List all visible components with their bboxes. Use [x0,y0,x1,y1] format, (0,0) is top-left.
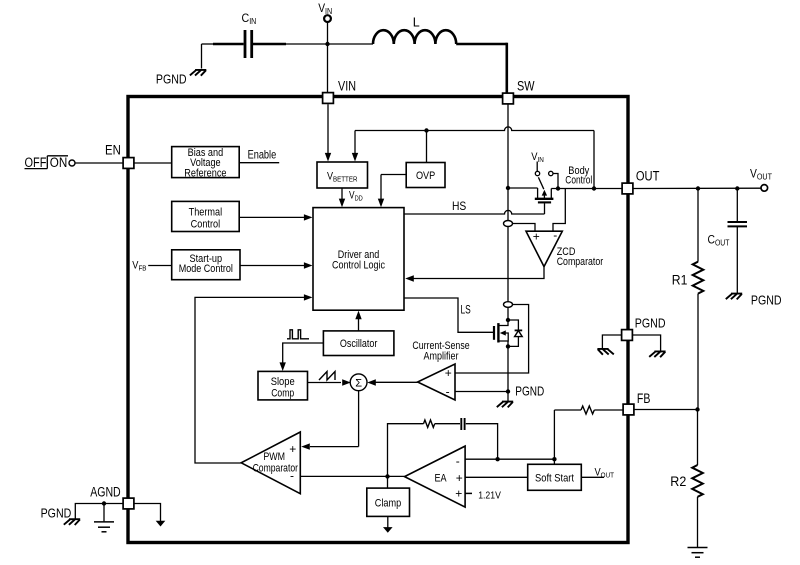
svg-text:Comparator: Comparator [557,256,604,268]
svg-text:Control Logic: Control Logic [332,260,385,272]
svg-text:-: - [456,454,460,468]
svg-text:Clamp: Clamp [375,498,401,510]
svg-text:Control: Control [191,219,221,231]
svg-text:Thermal: Thermal [189,207,223,219]
svg-text:VIN: VIN [338,79,356,94]
svg-text:-: - [446,385,450,399]
svg-text:+: + [533,229,540,243]
svg-text:R2: R2 [670,474,686,489]
svg-text:1.21V: 1.21V [478,489,501,501]
svg-text:Σ: Σ [355,377,362,389]
svg-text:Oscillator: Oscillator [340,338,378,350]
svg-text:SW: SW [517,79,535,94]
svg-text:EA: EA [435,473,448,485]
svg-text:Reference: Reference [184,167,226,179]
svg-text:Comp: Comp [271,388,294,400]
svg-text:PGND: PGND [635,316,666,331]
svg-text:Amplifier: Amplifier [424,351,459,363]
svg-text:Soft Start: Soft Start [535,473,574,485]
svg-text:EN: EN [105,143,121,158]
svg-text:+: + [455,486,462,500]
svg-text:OFF: OFF [25,155,47,170]
svg-text:HS: HS [452,199,466,213]
svg-text:+: + [445,366,452,380]
svg-text:PGND: PGND [515,385,544,399]
svg-text:FB: FB [637,391,651,406]
svg-text:OUT: OUT [636,168,660,183]
svg-text:ON: ON [50,155,68,170]
svg-text:Control: Control [565,174,592,186]
svg-text:PGND: PGND [751,292,782,307]
svg-text:OVP: OVP [416,170,435,182]
svg-text:Mode Control: Mode Control [179,263,233,275]
svg-text:-: - [290,469,294,483]
svg-text:-: - [553,228,557,242]
svg-text:AGND: AGND [90,484,121,499]
svg-text:L: L [413,16,420,30]
svg-text:R1: R1 [672,273,688,288]
svg-text:PGND: PGND [41,505,72,520]
svg-text:LS: LS [461,302,471,316]
svg-text:+: + [456,471,463,485]
svg-text:Slope: Slope [271,376,295,388]
svg-text:+: + [289,442,296,456]
svg-text:PGND: PGND [156,72,187,87]
svg-text:PWM: PWM [263,451,285,463]
svg-text:Enable: Enable [248,148,277,162]
